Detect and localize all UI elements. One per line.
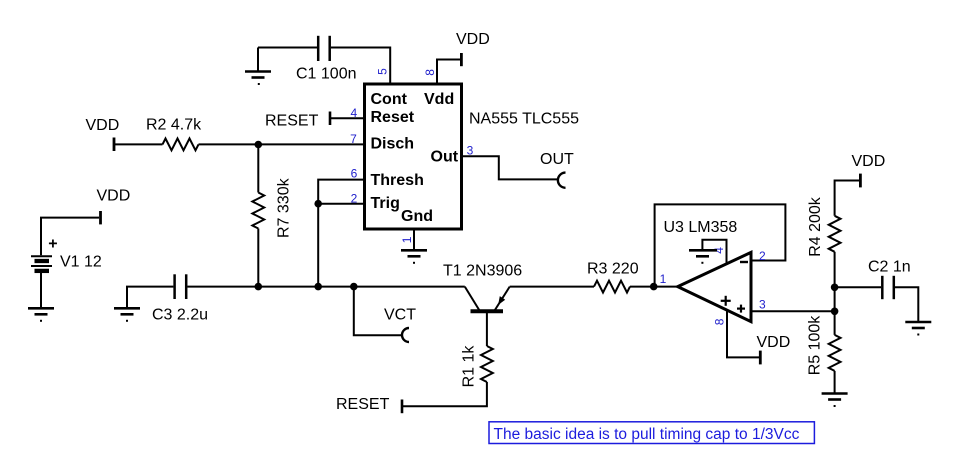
ground (C2) [905, 322, 931, 335]
svg-text:Reset: Reset [371, 109, 415, 126]
junction [831, 308, 839, 316]
svg-text:Disch: Disch [371, 136, 415, 153]
port VCT [402, 328, 409, 342]
svg-text:VDD: VDD [757, 334, 791, 351]
svg-text:OUT: OUT [540, 151, 574, 168]
svg-text:1: 1 [660, 272, 667, 286]
wire [331, 117, 365, 119]
port OUT [558, 173, 566, 188]
power VDD [460, 53, 463, 66]
op-amp minus mark [740, 261, 748, 263]
wire (pin 8 to VDD) [727, 312, 759, 358]
power VDD (R4) [859, 174, 862, 188]
power VDD (op-amp) [759, 351, 762, 365]
svg-text:U3 LM358: U3 LM358 [664, 219, 738, 236]
svg-text:R7 330k: R7 330k [276, 177, 293, 238]
wire [41, 218, 99, 256]
battery V1 [31, 256, 52, 271]
svg-text:V1 12: V1 12 [60, 254, 102, 271]
junction [314, 283, 322, 291]
svg-text:C2 1n: C2 1n [868, 259, 911, 276]
svg-text:VDD: VDD [86, 117, 120, 134]
svg-text:The basic idea is to pull timi: The basic idea is to pull timing cap to … [494, 426, 800, 443]
junction [650, 283, 658, 291]
wire [187, 286, 464, 288]
ground (555) [401, 250, 427, 262]
svg-text:Vdd: Vdd [424, 91, 454, 108]
wire [257, 229, 259, 287]
ground (C3) [114, 308, 140, 321]
svg-text:R2 4.7k: R2 4.7k [146, 116, 202, 133]
svg-text:RESET: RESET [336, 396, 390, 413]
svg-text:4: 4 [350, 106, 357, 120]
svg-text:Trig: Trig [371, 195, 400, 212]
wire (pin 6 Thresh) [318, 180, 364, 204]
svg-text:R1 1k: R1 1k [461, 345, 478, 388]
wire [40, 272, 42, 308]
svg-text:VDD: VDD [97, 187, 131, 204]
resistor R7 [252, 193, 264, 229]
svg-text:RESET: RESET [265, 112, 319, 129]
wire [115, 143, 163, 145]
junction [314, 200, 322, 208]
ground (op-amp V-) [689, 250, 717, 262]
junction [350, 283, 358, 291]
svg-text:VDD: VDD [456, 31, 490, 48]
port RESET (pin 4) [329, 112, 332, 126]
wire [258, 47, 317, 49]
resistor R2 [163, 139, 199, 151]
wire (node VCT) [354, 287, 402, 336]
wire [257, 145, 259, 193]
svg-text:NA555 TLC555: NA555 TLC555 [469, 111, 579, 128]
svg-text:VDD: VDD [852, 153, 886, 170]
transistor Q1 T1 2N3906 [465, 287, 510, 312]
resistor R3 [594, 281, 630, 293]
wire (feedback loop) [655, 204, 786, 286]
svg-text:7: 7 [350, 132, 357, 146]
svg-text:R3 220: R3 220 [587, 260, 639, 277]
svg-text:5: 5 [376, 68, 390, 75]
capacitor C3 [175, 274, 187, 299]
ground (C1) [245, 48, 271, 85]
junction [831, 284, 839, 292]
capacitor C1 [318, 36, 330, 61]
svg-text:2: 2 [759, 249, 766, 263]
ground (V1) [28, 308, 54, 321]
svg-text:T1 2N3906: T1 2N3906 [443, 262, 522, 279]
wire [403, 382, 487, 406]
svg-text:8: 8 [713, 318, 727, 325]
port RESET (bottom) [401, 400, 404, 414]
wire [834, 371, 836, 394]
svg-text:Gnd: Gnd [401, 208, 433, 225]
ground (R5) [822, 394, 848, 407]
power VDD (left) [113, 138, 116, 152]
svg-text:3: 3 [467, 144, 474, 158]
svg-text:VCT: VCT [384, 307, 416, 324]
svg-text:6: 6 [351, 167, 358, 181]
svg-text:R5 100k: R5 100k [807, 315, 824, 376]
svg-text:2: 2 [351, 191, 358, 205]
op-amp plus mark (pin 3) [737, 305, 745, 313]
svg-text:3: 3 [759, 297, 766, 311]
junction [254, 283, 262, 291]
power VDD (battery) [99, 211, 102, 224]
svg-text:Out: Out [431, 149, 459, 166]
svg-text:Cont: Cont [371, 91, 408, 108]
wire [486, 313, 488, 346]
wire [127, 287, 173, 309]
resistor R5 [829, 335, 841, 371]
wire [199, 143, 365, 145]
wire (pin 4 to ground) [702, 240, 726, 263]
wire [895, 287, 918, 322]
wire [834, 252, 836, 335]
annotation note [489, 422, 814, 444]
wire (pin 3 op-amp) [751, 310, 835, 312]
wire [835, 181, 859, 216]
svg-text:C3 2.2u: C3 2.2u [152, 306, 208, 323]
junction [254, 141, 262, 149]
capacitor C2 [882, 276, 894, 299]
op-amp plus mark [721, 296, 731, 306]
resistor R4 [829, 216, 841, 252]
svg-text:1: 1 [400, 236, 414, 243]
wire [331, 48, 390, 85]
resistor R1 [481, 346, 493, 382]
IC U1 555 [365, 84, 462, 229]
svg-text:Thresh: Thresh [371, 172, 424, 189]
svg-text:R4 200k: R4 200k [807, 196, 824, 257]
wire (pin 2 Trig) [318, 203, 364, 205]
wire [835, 286, 881, 288]
svg-text:8: 8 [423, 69, 437, 76]
svg-text:C1 100n: C1 100n [296, 66, 357, 83]
wire [317, 204, 319, 287]
wire [437, 60, 460, 85]
wire [510, 286, 594, 288]
wire (pin 3 Out) [462, 156, 559, 179]
wire (pin 1 Gnd) [413, 229, 415, 250]
wire [630, 286, 678, 288]
svg-text:+: + [48, 235, 57, 252]
op-amp U3 LM358 [678, 252, 751, 321]
